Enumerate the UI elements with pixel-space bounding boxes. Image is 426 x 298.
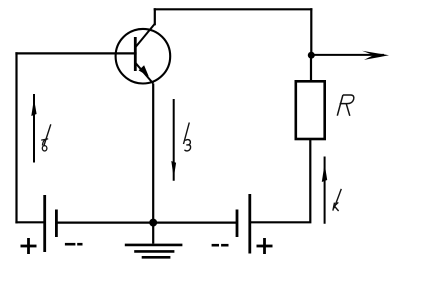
wire: right rail upper (top rail to junction) <box>310 9 312 55</box>
wire: bottom left (left rail to battery) <box>17 221 45 223</box>
battery GB1 long plate (+) <box>43 195 46 252</box>
ground bar 2 <box>134 250 174 253</box>
battery GB1 short plate (-) <box>55 210 58 238</box>
transistor VT1 collector diagonal <box>136 24 155 47</box>
transistor VT1 emitter arrowhead <box>139 65 149 76</box>
node: collector junction dot <box>308 52 315 59</box>
ground bar 3 <box>142 256 171 259</box>
wire: top rail <box>155 8 311 10</box>
current arrow Ie shaft <box>173 99 175 181</box>
wire: emitter lead down <box>152 84 154 223</box>
current arrow Ik shaft <box>324 157 326 224</box>
label Ik <box>333 189 341 211</box>
wire: bottom left-middle (left battery to ground junction) <box>56 222 153 224</box>
wire: base lead <box>17 52 136 54</box>
label Ib <box>41 124 51 151</box>
ground stem <box>152 223 154 244</box>
battery GB2 long plate (+) <box>248 194 251 254</box>
current arrow Ib head (up) <box>31 99 36 117</box>
label + (right battery) <box>257 238 273 254</box>
label Ie <box>184 123 191 151</box>
label + (left battery) <box>21 238 37 254</box>
transistor VT1 body circle <box>116 29 171 84</box>
wire: left rail <box>15 53 17 222</box>
wire: output lead <box>311 54 384 56</box>
label R <box>337 95 354 116</box>
node: ground junction dot <box>149 219 157 227</box>
output arrowhead <box>362 51 389 60</box>
wire: resistor bottom to lower-right corner <box>250 139 310 222</box>
wire: junction to resistor top <box>310 55 312 81</box>
label - (right battery) <box>212 244 229 247</box>
resistor R body <box>296 81 325 139</box>
transistor VT1 base bar <box>134 37 137 71</box>
current arrow Ib shaft <box>33 94 35 163</box>
label - (left battery) <box>65 243 83 246</box>
current arrow Ik head (up) <box>322 164 327 183</box>
battery GB2 short plate (-) <box>236 210 239 238</box>
wire: bottom middle (ground junction to right battery) <box>153 222 237 224</box>
ground bar 1 <box>125 244 183 247</box>
wire: collector riser <box>154 9 156 24</box>
transistor VT1 emitter diagonal <box>136 63 153 83</box>
current arrow Ie head (down) <box>171 161 176 178</box>
